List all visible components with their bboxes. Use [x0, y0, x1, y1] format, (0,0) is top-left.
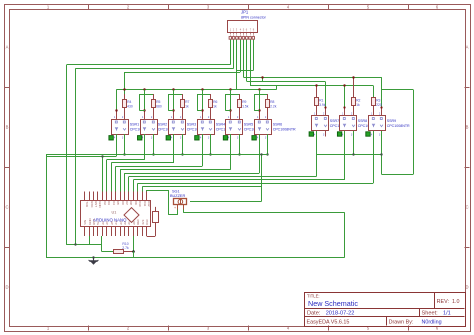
svg-text:CPC1008NTR: CPC1008NTR [387, 124, 410, 128]
svg-text:A4: A4 [114, 221, 118, 225]
connector JP1 body [228, 21, 258, 40]
svg-text:SSR3: SSR3 [187, 123, 196, 127]
ground symbol [89, 257, 99, 265]
svg-text:C: C [5, 205, 8, 210]
resistor R7 [181, 100, 190, 120]
net port square SSR7 [309, 132, 313, 136]
resistor R9 [238, 100, 249, 120]
svg-text:A6: A6 [105, 221, 109, 225]
svg-text:New Schematic: New Schematic [308, 299, 358, 308]
wire SSR4 bottom-left to D5 line [202, 134, 204, 166]
svg-text:SSR6: SSR6 [273, 123, 282, 127]
wire net D5 [116, 166, 203, 191]
wire net JP1-6 [247, 40, 326, 108]
wire net D12 to buzzer [147, 190, 178, 215]
resistor R6 [209, 100, 218, 120]
svg-text:Date:: Date: [307, 311, 321, 317]
net port square SSR9 [366, 132, 370, 136]
svg-text:1.5k: 1.5k [242, 104, 249, 108]
svg-text:SSR7: SSR7 [330, 119, 339, 123]
wire A0 to R10 [132, 236, 135, 257]
svg-text:REF: REF [136, 219, 140, 225]
net port square SSR4 [195, 136, 199, 140]
pin stub SSR8 [343, 106, 345, 115]
wire SSR8 bottom-left to D9 line [344, 131, 346, 180]
svg-text:1k: 1k [213, 104, 217, 108]
wire left-pin column SSR6 [258, 90, 260, 119]
optocoupler SSR7 [312, 112, 354, 136]
svg-text:SSR8: SSR8 [358, 119, 367, 123]
resistor R8 [266, 100, 277, 120]
optocoupler SSR3 [169, 116, 211, 140]
svg-text:D12: D12 [147, 201, 151, 207]
wire left-pin column SSR5 [229, 90, 231, 119]
wire net D6 [120, 170, 231, 192]
net port square SSR5 [223, 136, 227, 140]
svg-text:1/1: 1/1 [443, 311, 451, 317]
wire ground bus [46, 213, 345, 259]
svg-text:R7: R7 [185, 100, 189, 104]
title block [304, 293, 466, 327]
resistor R11 [147, 207, 159, 237]
svg-text:SSR2: SSR2 [158, 123, 167, 127]
wire net D11 loop [142, 153, 262, 201]
svg-text:Sheet:: Sheet: [422, 311, 439, 317]
svg-text:R8: R8 [270, 100, 274, 104]
svg-text:VIN: VIN [83, 220, 87, 225]
resistor R1 [315, 86, 326, 116]
wire net D4 [111, 163, 173, 192]
wire SSR1 bottom-left to D2 line [116, 134, 118, 156]
wire net D3 [107, 160, 145, 192]
wire net JP1-8 [237, 40, 254, 71]
svg-text:2018-07-22: 2018-07-22 [326, 311, 355, 317]
svg-text:1k: 1k [185, 104, 189, 108]
svg-text:SSR9: SSR9 [387, 119, 396, 123]
svg-text:2.2k: 2.2k [270, 104, 277, 108]
wire buzzer to bus [183, 210, 185, 213]
svg-text:JP1: JP1 [241, 9, 249, 14]
svg-text:Drawn By:: Drawn By: [389, 320, 414, 326]
pin stub SSR9 [380, 106, 382, 115]
svg-text:SSR4: SSR4 [216, 123, 225, 127]
wire left-pin column SSR4 [201, 90, 203, 119]
svg-text:R1: R1 [319, 98, 323, 102]
svg-text:R3: R3 [376, 98, 380, 102]
svg-text:A: A [466, 45, 469, 50]
svg-text:EasyEDA V5.6.15: EasyEDA V5.6.15 [307, 320, 350, 326]
wire net D10 [138, 183, 374, 191]
resistor R2 [352, 77, 361, 115]
svg-text:D7: D7 [125, 201, 129, 205]
svg-text:B: B [6, 125, 9, 130]
wire left-pin column SSR3 [172, 90, 174, 119]
wire net JP1-3 [236, 40, 238, 90]
svg-text:R5: R5 [156, 100, 160, 104]
junction dots on rail [123, 88, 260, 90]
wire right common segment [316, 131, 382, 175]
svg-text:GND: GND [98, 201, 102, 207]
svg-text:8PIN connector: 8PIN connector [241, 15, 267, 19]
svg-text:R4: R4 [127, 100, 131, 104]
wire left-pin column SSR2 [143, 90, 145, 119]
net port square SSR8 [337, 132, 341, 136]
svg-text:430: 430 [127, 104, 133, 108]
optocoupler SSR1 [112, 116, 154, 140]
svg-text:2.7k: 2.7k [122, 246, 129, 250]
wire net JP1-7 [250, 40, 373, 108]
resistor R5 [152, 100, 162, 120]
wire SSR4 bottom-right to common [209, 134, 211, 156]
svg-text:D5: D5 [116, 201, 120, 205]
svg-text:SSR5: SSR5 [244, 123, 253, 127]
svg-text:3.9k: 3.9k [319, 103, 326, 107]
svg-text:+: + [174, 206, 176, 210]
svg-text:D3: D3 [107, 201, 111, 205]
arduino U1 body [81, 201, 151, 227]
svg-text:D2: D2 [103, 201, 107, 205]
wire SSR6 bottom-left to D7 line [259, 134, 261, 173]
svg-text:D: D [5, 285, 8, 290]
svg-text:D8: D8 [129, 201, 133, 205]
wire net D9 [133, 180, 344, 192]
svg-text:R6: R6 [213, 100, 217, 104]
svg-text:D10: D10 [138, 201, 142, 207]
wire SSR1 bottom-right to common [123, 134, 125, 156]
svg-text:D9: D9 [134, 201, 138, 205]
wire SSR5 bottom-left to D6 line [230, 134, 232, 170]
optocoupler SSR4 [198, 116, 240, 140]
wire net JP1-4 to R4 [125, 40, 241, 100]
svg-text:A: A [6, 45, 9, 50]
svg-text:D: D [465, 285, 468, 290]
svg-text:D11: D11 [143, 201, 147, 206]
svg-text:TXD: TXD [85, 201, 89, 207]
svg-text:SG1: SG1 [172, 189, 180, 193]
arduino top pins [85, 192, 151, 208]
svg-text:A1: A1 [127, 221, 131, 225]
wire resistor feed loop R7 [169, 94, 183, 111]
wire supply rail [116, 86, 276, 90]
optocoupler SSR5 [226, 116, 268, 140]
wire net D2 [46, 134, 117, 245]
wire SSR3 bottom-left to D4 line [173, 134, 175, 163]
wire net JP1-5 [243, 40, 381, 108]
net port square SSR2 [138, 136, 142, 140]
svg-text:R9: R9 [242, 100, 246, 104]
arduino U1 labels [93, 211, 127, 223]
junction dots right group feeds [315, 76, 354, 86]
wire left-pin column SSR1 [115, 90, 117, 119]
wire net JP1-1 [67, 40, 231, 245]
wire SSR5 bottom-right to common [238, 134, 240, 156]
svg-text:C: C [465, 205, 468, 210]
resistor R3 [372, 98, 382, 116]
svg-text:U1: U1 [112, 211, 117, 215]
optocoupler SSR8 [340, 112, 382, 136]
wire GND pin down [74, 236, 89, 246]
svg-text:CPC1008NTR: CPC1008NTR [273, 128, 296, 132]
svg-text:B: B [466, 125, 469, 130]
svg-text:R2: R2 [356, 98, 360, 102]
svg-text:N0rdling: N0rdling [422, 320, 442, 326]
net port square SSR1 [109, 136, 113, 140]
wire resistor feed loop R8 [254, 94, 267, 111]
wire common output line [46, 154, 268, 257]
wire SSR7 bottom-left to D8 line [316, 131, 318, 176]
wire net D7 [125, 173, 260, 191]
resistor R4 [123, 100, 133, 120]
svg-text:RXD: RXD [90, 201, 94, 207]
net port square SSR3 [166, 136, 170, 140]
svg-text:BUZZER: BUZZER [170, 194, 185, 198]
connector JP1 labels [241, 9, 267, 19]
svg-text:D6: D6 [121, 201, 125, 205]
arduino bottom pins [83, 218, 149, 236]
wire net JP1-2 [75, 40, 233, 245]
svg-text:680: 680 [156, 104, 162, 108]
wire resistor feed loop R6 [197, 94, 211, 111]
svg-text:220: 220 [376, 103, 382, 107]
wire SSR9 bottom-left to D10 line [373, 131, 375, 183]
svg-text:D13: D13 [145, 219, 149, 225]
wire SSR9 output loop [382, 90, 414, 175]
wire 5V to R10 [102, 236, 114, 252]
net port square SSR6 [252, 136, 256, 140]
svg-text:5V: 5V [96, 221, 100, 225]
wire resistor feed loop R5 [140, 94, 154, 111]
svg-text:D4: D4 [112, 201, 116, 205]
svg-text:TITLE:: TITLE: [307, 294, 320, 299]
wire SSR3 bottom-right to common [181, 134, 183, 156]
wire SSR2 bottom-left to D3 line [144, 134, 146, 160]
svg-text:SSR1: SSR1 [130, 123, 139, 127]
buzzer SG1 labels [170, 189, 185, 198]
wire resistor feed loop R9 [226, 94, 240, 111]
wire net D8 [129, 176, 317, 191]
wire bridge between fan lines [261, 76, 263, 81]
buzzer SG1 symbol [174, 199, 187, 210]
wire SSR6 bottom-right to common [266, 134, 268, 156]
svg-text:RST: RST [94, 201, 98, 207]
pin stub SSR7 [324, 106, 326, 115]
svg-text:REV: 1.0: REV: 1.0 [437, 299, 460, 305]
resistor R10 [114, 242, 134, 253]
optocoupler SSR2 [141, 116, 182, 140]
optocoupler SSR9 [369, 112, 411, 136]
wire SSR2 bottom-right to common [152, 134, 154, 156]
svg-text:1k: 1k [356, 103, 360, 107]
optocoupler SSR6 [255, 116, 297, 140]
